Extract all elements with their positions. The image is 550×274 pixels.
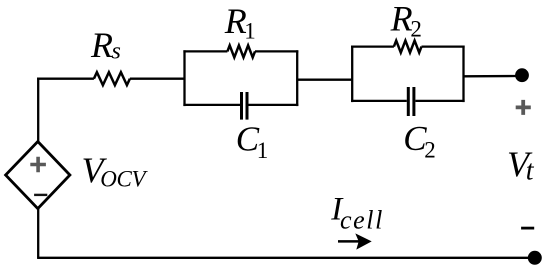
wire: RC1 left vertical edge	[183, 50, 185, 106]
current arrow Icell	[338, 240, 359, 243]
svg-text:R: R	[90, 25, 113, 65]
wire: RC2 top edge right segment	[422, 45, 465, 47]
node: negative terminal dot	[528, 251, 542, 265]
node: positive terminal dot	[515, 68, 529, 82]
polarity plus inside source	[30, 157, 46, 173]
svg-text:cell: cell	[340, 205, 384, 234]
wire: Rs to RC1 block	[130, 78, 185, 80]
capacitor C1 right plate	[246, 92, 249, 120]
svg-text:s: s	[112, 39, 121, 65]
wire: RC1 to RC2	[297, 79, 352, 81]
wire: RC2 bottom edge right segment	[416, 100, 465, 102]
resistor Rs	[94, 72, 130, 85]
wire: RC2 to positive terminal	[464, 75, 523, 76]
svg-text:2: 2	[410, 17, 422, 42]
wire: left vertical from top wire down to source	[37, 78, 39, 143]
polarity plus at terminal	[516, 100, 531, 115]
capacitor C1 left plate	[240, 92, 243, 120]
capacitor C2 left plate	[407, 87, 410, 116]
wire: RC2 right vertical edge	[462, 46, 464, 103]
wire: RC1 top edge right segment	[255, 50, 298, 52]
wire: RC2 bottom edge left segment	[351, 100, 407, 102]
wire: RC1 right vertical edge	[296, 50, 298, 106]
wire: RC2 top edge left segment	[351, 45, 394, 47]
polarity minus at terminal	[521, 227, 534, 230]
svg-text:1: 1	[257, 138, 269, 163]
polarity minus inside source	[34, 194, 47, 196]
svg-text:1: 1	[244, 19, 256, 44]
wire: bottom rail	[37, 257, 530, 259]
wire: RC1 top edge left segment	[183, 50, 227, 52]
wire: RC2 left vertical edge	[351, 46, 353, 103]
resistor R1	[227, 45, 255, 57]
svg-text:t: t	[526, 156, 535, 187]
wire: RC1 bottom edge right segment	[249, 104, 299, 106]
svg-text:OCV: OCV	[100, 167, 148, 192]
svg-text:R: R	[390, 0, 413, 38]
wire: left vertical from source down to bottom rail	[37, 208, 39, 258]
svg-text:2: 2	[424, 138, 436, 163]
wire: RC1 bottom edge left segment	[183, 104, 240, 106]
resistor R2	[394, 41, 422, 53]
voltage source VOCV diamond	[6, 142, 70, 209]
capacitor C2 right plate	[412, 87, 415, 116]
wire: top-left horizontal from source corner to Rs	[37, 78, 94, 80]
